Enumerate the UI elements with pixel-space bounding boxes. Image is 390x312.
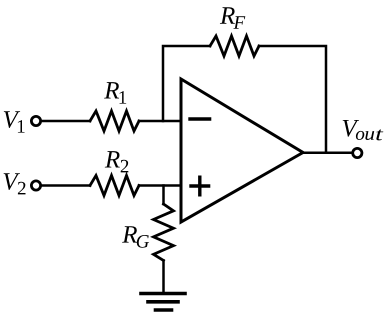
op-amp plus sign [191, 184, 209, 187]
op-amp U1 [181, 79, 303, 222]
wire op-amp output to Vout terminal [303, 152, 352, 155]
label Vout [343, 120, 384, 140]
wire V1 to R1 [41, 120, 90, 123]
wire R2 to op-amp non-inverting input [139, 184, 180, 187]
label RF [220, 7, 245, 28]
resistor RF [210, 36, 259, 56]
resistor RG [154, 204, 174, 261]
wire RG to ground [162, 261, 165, 294]
wire node to RG [162, 186, 165, 205]
label R2 [105, 151, 129, 172]
terminal V2 [31, 181, 40, 190]
resistor R1 [90, 111, 139, 131]
wire V2 to R2 [41, 184, 90, 187]
label RG [122, 226, 149, 248]
ground [141, 292, 185, 296]
label R1 [104, 82, 126, 104]
wire feedback left vertical (node at inverting input) [163, 46, 210, 121]
resistor R2 [90, 176, 139, 196]
wire RF to output node [259, 46, 326, 153]
label V2 [4, 173, 26, 194]
op-amp minus sign [190, 117, 210, 120]
wire R1 to op-amp inverting input [139, 120, 180, 123]
terminal Vout [353, 148, 362, 157]
terminal V1 [31, 116, 40, 125]
label V1 [4, 111, 25, 132]
